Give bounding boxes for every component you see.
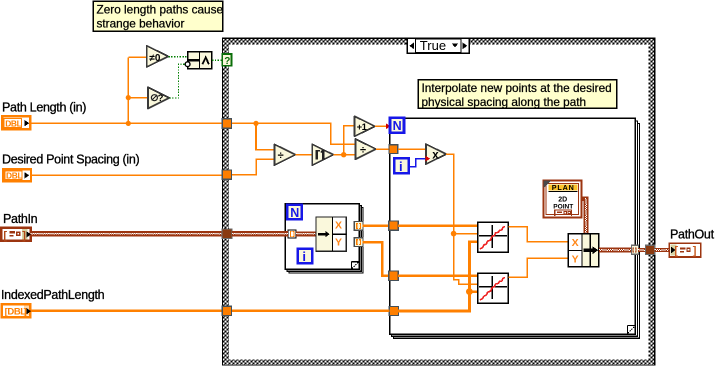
inner for loop border: [285, 204, 363, 274]
wire PathIn to case: [31, 231, 223, 236]
svg-text:Y: Y: [572, 254, 579, 266]
wire X array to big loop: [363, 224, 389, 227]
wire IndexedPathLength to Interpolate2: [469, 290, 477, 293]
svg-text:?: ?: [158, 93, 164, 104]
wire tunnel to case tunnel: [638, 248, 645, 252]
wire increment to N: [375, 125, 386, 127]
wire multiply to Interpolate1 x input: [454, 233, 478, 235]
tunnel PathOut on case: [646, 245, 655, 254]
wire bundle output to tunnel: [599, 248, 631, 253]
wire IndexedPathLength to case: [31, 310, 222, 312]
svg-text:]: ]: [22, 230, 26, 242]
page curl big loop: [627, 326, 635, 334]
node Interpolate 1D Array 2: [478, 273, 509, 303]
wire case tunnel to PathOut: [655, 248, 669, 252]
wire divide2 to tunnel: [376, 148, 390, 150]
tunnel divide2 result: [389, 145, 398, 154]
big for loop border: [390, 118, 640, 338]
svg-text:÷: ÷: [278, 150, 284, 162]
node Divide 2: [355, 139, 376, 159]
junction on ceil output: [341, 152, 346, 157]
wire tunnel to multiply: [398, 148, 426, 150]
node Round Toward +Infinity: [312, 144, 333, 165]
constant PLAN 2D POINT cluster: [543, 181, 581, 218]
control IndexedPathLength DBL array: [2, 304, 31, 318]
junction on IndexedPathLength array wire: [466, 288, 473, 295]
svg-text:÷: ÷: [360, 144, 366, 156]
tunnel indexing on big loop right: [631, 245, 638, 254]
svg-text:strange behavior: strange behavior: [97, 17, 185, 31]
tunnel Y on big loop: [389, 271, 398, 280]
wire Spacing inside case: [232, 159, 275, 174]
svg-text:PLAN: PLAN: [552, 183, 575, 192]
label IndexedPathLength: [1, 288, 105, 302]
svg-text:DBL: DBL: [6, 171, 22, 181]
wire Path Length to Divide1: [256, 123, 274, 149]
svg-text:IndexedPathLength: IndexedPathLength: [1, 288, 105, 302]
wire to Empty Array input: [128, 97, 148, 99]
coercion dot at N: [386, 123, 391, 129]
svg-text:X: X: [572, 237, 579, 249]
wire multiply to Interpolate2 x input: [454, 234, 478, 285]
control PathIn cluster array: [1, 228, 31, 242]
wire IndexedPathLength to Interpolate1: [398, 242, 478, 311]
svg-text:2D: 2D: [558, 196, 567, 203]
case selector terminal ?: [222, 54, 231, 67]
svg-text:[: [: [3, 230, 7, 242]
case selector label "True": [407, 38, 469, 53]
tunnel Desired Point Spacing: [222, 170, 231, 179]
svg-text:PathIn: PathIn: [3, 212, 38, 226]
control Desired Point Spacing DBL: [3, 169, 31, 181]
tunnel IndexedPathLength: [222, 306, 231, 315]
label PathOut: [670, 227, 715, 241]
node Bundle X Y: [568, 234, 599, 267]
node Not Equal To 0?: [147, 46, 169, 67]
terminal i inner loop: [298, 249, 313, 265]
svg-text:≠0: ≠0: [149, 53, 160, 64]
svg-text:Y: Y: [335, 237, 342, 249]
node Compound Arithmetic And: [185, 52, 212, 69]
wire multiply output down: [446, 154, 453, 234]
svg-text:i: i: [302, 249, 306, 264]
tunnel Y inner loop: [354, 238, 363, 247]
terminal N inner loop: [287, 205, 302, 220]
junction on Path Length wire: [126, 121, 131, 126]
svg-text:Desired Point Spacing (in): Desired Point Spacing (in): [2, 153, 140, 167]
tunnel PathIn: [222, 229, 232, 239]
terminal N big loop: [390, 118, 404, 133]
svg-text:+1: +1: [357, 122, 368, 133]
wire ceil output to Divide2: [333, 154, 355, 156]
wire PathIn tunnel to unbundle: [296, 231, 316, 236]
wire Path Length to case tunnel: [31, 122, 223, 124]
terminal i big loop: [394, 158, 409, 174]
node Increment +1: [355, 116, 375, 136]
node Multiply: [426, 144, 446, 164]
tunnel IndexedPathLength on big loop: [389, 306, 398, 315]
wire Path Length to Divide2: [232, 123, 356, 144]
tunnel PathIn indexing on inner loop: [288, 230, 296, 238]
svg-text:]: ]: [693, 245, 697, 257]
svg-text:PathOut: PathOut: [670, 227, 715, 241]
node Unbundle X Y: [316, 217, 346, 251]
wire branch up from Path Length: [127, 57, 129, 123]
node Interpolate 1D Array 1: [478, 222, 509, 252]
wire Y array inside loop: [398, 274, 477, 277]
svg-text:N: N: [290, 206, 299, 220]
junction inside case on Path Length: [253, 121, 258, 126]
tunnel Path Length: [222, 119, 231, 129]
svg-text:x: x: [432, 149, 439, 161]
junction at Empty Array branch: [126, 95, 131, 100]
coercion dot at multiply: [425, 156, 430, 162]
svg-text:]: ]: [24, 307, 27, 318]
svg-text:i: i: [399, 159, 403, 174]
label Path Length (in): [2, 101, 86, 115]
node Empty Array?: [148, 87, 169, 108]
label Desired Point Spacing (in): [2, 153, 140, 167]
control Path Length (in) DBL: [2, 116, 30, 129]
wire dotted And output to selector: [212, 59, 222, 61]
svg-text:DBL: DBL: [5, 118, 21, 128]
wire ceil output to Increment: [344, 126, 355, 155]
tunnel X inner loop: [354, 222, 363, 231]
wire Desired Point Spacing to case: [31, 174, 222, 176]
wire PathIn inside case to inner loop: [232, 231, 288, 236]
tunnel X on big loop: [389, 221, 398, 230]
node Divide 1: [274, 144, 295, 165]
wire to Not Equal input: [128, 56, 147, 58]
free label comment 2: [418, 80, 617, 109]
wire i to multiply: [409, 159, 426, 167]
wire interp2 to bundle Y: [508, 258, 568, 277]
wire divide1 to ceil: [295, 154, 312, 156]
free label comment 1: [93, 1, 223, 31]
svg-text:?: ?: [224, 56, 230, 67]
wire PLAN constant to bundle: [581, 197, 588, 234]
svg-text:Path Length (in): Path Length (in): [2, 101, 86, 115]
case structure border: [223, 38, 655, 365]
svg-text:POINT: POINT: [553, 203, 573, 210]
wire dotted not-equal to And: [168, 56, 187, 58]
wire dotted empty to And inverted input: [169, 64, 184, 98]
wire interp1 to bundle X: [508, 227, 568, 242]
indicator PathOut: [669, 243, 701, 257]
label PathIn: [3, 212, 38, 226]
page curl inner loop: [351, 262, 359, 269]
svg-text:True: True: [420, 38, 446, 53]
svg-text:X: X: [335, 220, 342, 232]
svg-text:N: N: [393, 119, 402, 133]
wire IndexedPathLength inside case: [232, 310, 389, 312]
wire Y array to big loop: [363, 242, 389, 276]
junction on multiply output: [451, 231, 457, 237]
svg-text:Zero length paths cause: Zero length paths cause: [97, 2, 224, 16]
svg-text:[: [: [674, 245, 678, 257]
wire X array inside loop: [398, 224, 477, 227]
svg-text:physical spacing along the pat: physical spacing along the path: [422, 95, 587, 109]
svg-text:Interpolate new points at the: Interpolate new points at the desired: [422, 81, 612, 95]
